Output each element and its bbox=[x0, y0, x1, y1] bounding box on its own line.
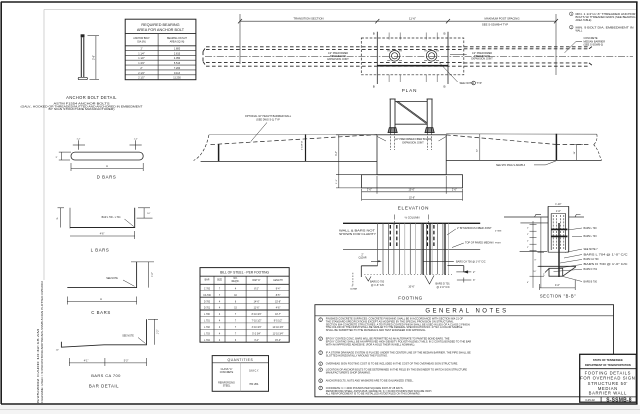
label: BARS D 701 with V leader bbox=[425, 276, 434, 285]
svg-text:BARS CA 700: BARS CA 700 bbox=[91, 373, 121, 378]
svg-text:S-SSMB-8: S-SSMB-8 bbox=[606, 398, 632, 404]
svg-text:BAR DETAIL: BAR DETAIL bbox=[89, 384, 119, 389]
CA bar right dim bbox=[154, 319, 156, 345]
svg-text:CLEAR: CLEAR bbox=[359, 257, 367, 260]
svg-text:℅ COLUMN: ℅ COLUMN bbox=[405, 215, 420, 219]
svg-text:ANCHOR BOLT DETAIL: ANCHOR BOLT DETAIL bbox=[66, 95, 117, 100]
inner faint margin border bbox=[44, 10, 636, 281]
svg-text:NO.: NO. bbox=[233, 278, 237, 280]
barrier dashed edge lines (plan) bbox=[203, 46, 593, 66]
svg-text:EXPANSION JOINT: EXPANSION JOINT bbox=[327, 58, 349, 61]
footing plan: wall edge lines bbox=[343, 222, 480, 224]
note 7 bbox=[319, 386, 323, 390]
svg-text:6": 6" bbox=[527, 282, 529, 284]
svg-text:ELEVATION: ELEVATION bbox=[398, 206, 429, 211]
svg-text:4" EXP JT: 4" EXP JT bbox=[301, 140, 303, 150]
label: BARS CA 700 leader bbox=[423, 260, 454, 262]
svg-text:2": 2" bbox=[473, 271, 475, 274]
section rebar dashed verticals bbox=[553, 215, 564, 250]
L bars bottom dim bbox=[70, 231, 135, 239]
svg-text:8": 8" bbox=[534, 260, 536, 262]
footing plan: heavy bars (thick) bbox=[423, 223, 445, 274]
svg-text:2 1/4": 2 1/4" bbox=[138, 72, 145, 75]
bar detail: BARS CA 700 bent bar bbox=[56, 319, 160, 388]
svg-text:(SEE DWG S-1) TYP: (SEE DWG S-1) TYP bbox=[256, 118, 280, 121]
mid joint line bbox=[305, 134, 307, 161]
svg-text:L 703: L 703 bbox=[204, 334, 210, 336]
svg-text:AREA (SQ IN): AREA (SQ IN) bbox=[170, 40, 185, 43]
dim ticks bbox=[238, 19, 558, 23]
note 6 bbox=[319, 379, 323, 383]
svg-text:DIM "A": DIM "A" bbox=[252, 279, 260, 282]
post base plate right bbox=[425, 128, 434, 133]
svg-text:STATE OF TENNESSEE: STATE OF TENNESSEE bbox=[593, 358, 623, 362]
barrier right end big curl bbox=[594, 145, 602, 161]
right joint line (thick) bbox=[555, 134, 557, 161]
svg-text:10'-6": 10'-6" bbox=[408, 285, 414, 288]
barrier left: top solid line bbox=[209, 134, 377, 136]
svg-text:MANUFACTURER'S SHOP DRAWING.: MANUFACTURER'S SHOP DRAWING. bbox=[326, 371, 371, 375]
svg-text:11'-10 3/4": 11'-10 3/4" bbox=[273, 334, 284, 336]
footing top line (section) bbox=[538, 265, 576, 267]
section line below (ground ref) bbox=[520, 250, 547, 252]
C bars right dim bbox=[148, 262, 150, 288]
barrier left: ground line bbox=[201, 160, 377, 162]
svg-text:3-25-02: 3-25-02 bbox=[585, 398, 595, 402]
svg-text:LENGTH: LENGTH bbox=[273, 280, 283, 282]
svg-text:CLEAR: CLEAR bbox=[350, 288, 358, 291]
svg-text:FILENAME: USER = S:\PROJ\STD\S: FILENAME: USER = S:\PROJ\STD\SGN\OHSIGN\… bbox=[41, 280, 44, 403]
footing plan: right step outline bbox=[448, 266, 464, 272]
right 16" dim bbox=[576, 144, 578, 160]
svg-text:CA 700: CA 700 bbox=[203, 294, 211, 297]
svg-text:3'-10 3/4": 3'-10 3/4" bbox=[252, 327, 262, 329]
svg-text:5.513: 5.513 bbox=[174, 62, 181, 65]
svg-text:8'-10 3/4": 8'-10 3/4" bbox=[252, 314, 262, 316]
svg-text:4" MIN: 4" MIN bbox=[495, 230, 502, 232]
svg-text:1'-2": 1'-2" bbox=[134, 138, 138, 140]
anchor bolt detail: bolt rod bbox=[21, 34, 144, 111]
svg-text:BAR L 700 - L 704: BAR L 700 - L 704 bbox=[102, 216, 121, 219]
D bars hook tick markers bbox=[73, 140, 142, 149]
post base plate left bbox=[388, 128, 397, 133]
svg-text:D 700: D 700 bbox=[204, 301, 211, 303]
svg-text:BARS L 703: BARS L 703 bbox=[584, 235, 598, 238]
note 4 bbox=[319, 362, 323, 366]
pedestal outline bbox=[377, 135, 446, 175]
svg-text:8'-2": 8'-2" bbox=[254, 288, 259, 290]
svg-text:DEPARTMENT OF TRANSPORTATION: DEPARTMENT OF TRANSPORTATION bbox=[585, 363, 631, 367]
svg-text:1'-10": 1'-10" bbox=[555, 203, 561, 206]
svg-text:SHALL BE SUBMITTED TO THE MATE: SHALL BE SUBMITTED TO THE MATERIALS AND … bbox=[326, 328, 427, 332]
svg-text:4'-1": 4'-1" bbox=[84, 361, 89, 363]
plan centerline bbox=[205, 55, 633, 57]
svg-text:4'-6": 4'-6" bbox=[100, 234, 105, 236]
svg-text:CONCRETE: CONCRETE bbox=[220, 371, 234, 374]
svg-text:1 1/2": 1 1/2" bbox=[138, 57, 145, 60]
svg-text:L 700: L 700 bbox=[204, 314, 210, 316]
svg-text:TYP: TYP bbox=[477, 81, 482, 85]
svg-text:1'-6": 1'-6" bbox=[556, 210, 561, 213]
svg-text:SEE NOTE: SEE NOTE bbox=[460, 81, 474, 85]
barrier right: dashed optional profile bbox=[446, 135, 591, 145]
table: QUANTITIES bbox=[212, 356, 268, 392]
svg-text:3'-6": 3'-6" bbox=[92, 55, 95, 60]
svg-text:FOOTING: FOOTING bbox=[398, 296, 422, 301]
anchor bolt circle left bbox=[389, 51, 400, 62]
section wall inner faces bbox=[550, 214, 552, 251]
svg-text:2": 2" bbox=[140, 67, 142, 70]
svg-text:SEE NOTE 7: SEE NOTE 7 bbox=[584, 248, 599, 251]
svg-text:D BARS: D BARS bbox=[97, 174, 117, 179]
section left dim stack bbox=[540, 217, 542, 288]
svg-text:3": 3" bbox=[352, 285, 354, 287]
anchor bolt dimension 3'-6" bbox=[88, 36, 100, 80]
svg-text:1'-3": 1'-3" bbox=[158, 330, 160, 335]
roadway lines left of wall bbox=[504, 216, 548, 218]
roadway lines right of wall bbox=[569, 216, 584, 218]
svg-text:ANCHOR BOLTS, NUTS AND WASHERS: ANCHOR BOLTS, NUTS AND WASHERS ARE TO BE… bbox=[326, 379, 414, 383]
FOOTING PLAN: column centerlines bbox=[395, 215, 429, 225]
svg-text:BARS L 700: BARS L 700 bbox=[584, 227, 598, 230]
svg-text:BARS L 704 @ 1'-0" C/C: BARS L 704 @ 1'-0" C/C bbox=[584, 253, 628, 256]
svg-text:MAXIMUM POST SPACING: MAXIMUM POST SPACING bbox=[484, 17, 519, 21]
callout leaders bbox=[554, 228, 583, 282]
svg-text:B: B bbox=[373, 32, 375, 36]
svg-text:REQUIRED BEARING: REQUIRED BEARING bbox=[141, 23, 179, 27]
svg-text:TOP OF PAVED MEDIAN: TOP OF PAVED MEDIAN bbox=[465, 242, 494, 245]
barrier right: ground line bbox=[446, 159, 601, 161]
bar detail: C BARS bbox=[67, 262, 154, 315]
svg-text:B: B bbox=[443, 32, 445, 36]
svg-text:PLAN: PLAN bbox=[402, 88, 418, 93]
anchor bolt bottom plate bbox=[78, 77, 87, 79]
plan label: SEE NOTE 1 TYP with leader bbox=[439, 62, 458, 82]
svg-text:10": 10" bbox=[533, 271, 536, 273]
svg-text:11.250: 11.250 bbox=[173, 77, 181, 80]
construction joint at bottom of pedestal bbox=[548, 251, 569, 253]
bar detail: L BARS bbox=[56, 208, 152, 253]
svg-text:1'-0": 1'-0" bbox=[152, 272, 154, 277]
svg-text:BARS D 700 @ 1'-0" C/C: BARS D 700 @ 1'-0" C/C bbox=[584, 263, 628, 266]
svg-text:9'-5 1/2": 9'-5 1/2" bbox=[274, 321, 283, 323]
svg-text:BARS D 701: BARS D 701 bbox=[584, 268, 598, 271]
section cut line B (left) bbox=[376, 32, 378, 84]
svg-text:@ 1'-6" C/C: @ 1'-6" C/C bbox=[437, 286, 450, 289]
svg-text:B: B bbox=[373, 85, 375, 89]
svg-text:@ 1'-6" C/C: @ 1'-6" C/C bbox=[371, 284, 384, 287]
PLAN VIEW: top dimension line bbox=[240, 14, 556, 75]
svg-text:BEARING ON NUT: BEARING ON NUT bbox=[167, 37, 187, 40]
svg-text:EXPANSION JOINT: EXPANSION JOINT bbox=[471, 58, 493, 61]
svg-text:BY SIGN STRUCTURE MANUFACTURER: BY SIGN STRUCTURE MANUFACTURER) bbox=[49, 108, 115, 111]
section wall outer faces bbox=[547, 206, 549, 252]
plan base plate heavy edge bbox=[377, 65, 448, 67]
svg-text:STEEL: STEEL bbox=[223, 385, 231, 388]
svg-text:MIN. 9 BOLT DIA. EMBEDMENT IN: MIN. 9 BOLT DIA. EMBEDMENT IN bbox=[576, 26, 634, 29]
CA bar bottom dim bbox=[69, 358, 146, 366]
svg-text:L 701: L 701 bbox=[204, 321, 210, 323]
ELEVATION: sign post left bbox=[390, 99, 396, 128]
svg-text:D 701: D 701 bbox=[204, 308, 211, 310]
footing plan: dashed D-bars at columns bbox=[390, 225, 434, 248]
svg-text:SHOWN FOR CLARITY: SHOWN FOR CLARITY bbox=[339, 233, 376, 236]
footing plan: CA rebar verticals bbox=[378, 223, 443, 274]
svg-text:3'-4": 3'-4" bbox=[335, 151, 338, 156]
svg-text:2" BITUMINOUS FIBER JOINT: 2" BITUMINOUS FIBER JOINT bbox=[457, 227, 492, 230]
svg-text:7'-10 1/2": 7'-10 1/2" bbox=[252, 321, 262, 323]
svg-text:2.813: 2.813 bbox=[174, 52, 181, 55]
bolt slot ticks bbox=[387, 51, 439, 61]
TITLE BLOCK bbox=[580, 354, 637, 402]
center heavy bar vertical bbox=[558, 223, 560, 277]
heavy bar markers in wall bbox=[552, 228, 568, 230]
svg-text:L 704: L 704 bbox=[204, 340, 210, 342]
svg-text:L 702: L 702 bbox=[204, 327, 210, 329]
svg-text:2'-6": 2'-6" bbox=[367, 189, 372, 192]
area below sheet bbox=[0, 405, 640, 414]
barrier left: optional barrier dashed top (sloping) bbox=[211, 135, 378, 145]
section bottom dim 4'-0" bbox=[540, 280, 576, 290]
svg-text:(SEE S-SDWB-3): (SEE S-SDWB-3) bbox=[584, 44, 604, 47]
footing plan: hidden bottom dashes bbox=[364, 274, 452, 276]
svg-text:14'-10 3/4": 14'-10 3/4" bbox=[273, 327, 284, 329]
title block body bbox=[580, 370, 635, 395]
svg-text:10'-6": 10'-6" bbox=[409, 189, 415, 192]
svg-text:3'-4": 3'-4" bbox=[254, 340, 259, 342]
svg-text:(GALV., HOOKED OR THREADED/NUT: (GALV., HOOKED OR THREADED/NUTTED AND AN… bbox=[21, 105, 144, 108]
svg-text:2": 2" bbox=[527, 241, 529, 243]
svg-text:EXPANSION JOINT: EXPANSION JOINT bbox=[402, 141, 424, 144]
svg-text:1'-2": 1'-2" bbox=[77, 138, 81, 140]
anchor bolt circle right bbox=[426, 51, 437, 62]
svg-text:PVMT: PVMT bbox=[495, 242, 502, 244]
left joint line (thick) bbox=[218, 144, 220, 161]
footing outline (elevation) bbox=[362, 175, 463, 188]
svg-text:1 1/4": 1 1/4" bbox=[138, 52, 145, 55]
svg-text:WALL: WALL bbox=[576, 29, 583, 32]
svg-text:B: B bbox=[443, 85, 445, 89]
post base extension ticks bbox=[389, 33, 437, 83]
svg-text:SEE NOTE: SEE NOTE bbox=[106, 278, 118, 280]
svg-text:32": 32" bbox=[477, 149, 479, 152]
svg-text:DIA.(IN): DIA.(IN) bbox=[137, 40, 146, 43]
svg-text:SEE S-SDWB-4 TYP: SEE S-SDWB-4 TYP bbox=[482, 23, 508, 27]
svg-text:10": 10" bbox=[56, 350, 59, 352]
svg-text:1'-1": 1'-1" bbox=[336, 179, 338, 184]
truss chords and diagonal bbox=[395, 100, 427, 102]
svg-text:TRANSITION SECTION: TRANSITION SECTION bbox=[293, 17, 323, 21]
title block bottom row bbox=[580, 396, 637, 398]
svg-text:2'-6": 2'-6" bbox=[452, 189, 457, 192]
table: BILL OF STEEL bbox=[200, 268, 289, 343]
svg-text:7.200: 7.200 bbox=[174, 67, 181, 70]
svg-text:BARS CA 700 @ 1'-0" C/C: BARS CA 700 @ 1'-0" C/C bbox=[456, 260, 486, 263]
svg-text:GENERAL NOTES: GENERAL NOTES bbox=[425, 309, 508, 315]
left clear dim dashed bbox=[352, 273, 354, 285]
svg-text:18.8 C.Y.: 18.8 C.Y. bbox=[249, 370, 259, 373]
svg-text:BAR: BAR bbox=[205, 278, 210, 281]
note 2 (top right) bbox=[570, 25, 574, 29]
svg-text:L BARS: L BARS bbox=[91, 248, 110, 253]
table: REQUIRED BEARING AREA FOR ANCHOR BOLT bbox=[125, 19, 196, 79]
svg-text:4'-0": 4'-0" bbox=[555, 284, 560, 287]
bar detail: D BARS stadium shape bbox=[56, 138, 144, 179]
svg-text:9.113: 9.113 bbox=[174, 72, 181, 75]
svg-text:1": 1" bbox=[140, 48, 142, 51]
label: BARS D 700 with V leader bbox=[366, 277, 372, 282]
svg-text:11'-6": 11'-6" bbox=[409, 17, 416, 21]
sign post right bbox=[427, 99, 433, 128]
svg-text:3": 3" bbox=[473, 279, 475, 282]
svg-text:A: A bbox=[106, 164, 108, 168]
C bars bottom dim bbox=[67, 297, 136, 305]
svg-text:SIZE: SIZE bbox=[217, 279, 223, 281]
svg-text:1.800: 1.800 bbox=[174, 48, 181, 51]
svg-text:ASTM F1554 ANCHOR BOLTS: ASTM F1554 ANCHOR BOLTS bbox=[54, 102, 111, 105]
svg-text:15'-6": 15'-6" bbox=[275, 301, 281, 303]
svg-text:780 LBS.: 780 LBS. bbox=[249, 383, 259, 386]
svg-text:2 1/2": 2 1/2" bbox=[138, 77, 145, 80]
svg-text:SEE NOTE: SEE NOTE bbox=[122, 335, 134, 337]
svg-text:QUANTITIES: QUANTITIES bbox=[228, 358, 254, 362]
svg-text:3": 3" bbox=[56, 157, 58, 159]
svg-text:11'-6": 11'-6" bbox=[254, 308, 260, 310]
L bars right dim 10 bbox=[137, 208, 153, 218]
svg-text:5'-3": 5'-3" bbox=[124, 361, 129, 363]
note 1 bbox=[319, 318, 323, 322]
footing plan: left step outline bbox=[361, 266, 377, 277]
svg-text:2": 2" bbox=[527, 234, 529, 236]
svg-text:2": 2" bbox=[527, 247, 529, 249]
svg-text:BARS B 700: BARS B 700 bbox=[584, 280, 598, 283]
svg-text:10": 10" bbox=[147, 213, 150, 215]
GENERAL NOTES box bbox=[315, 305, 614, 397]
D bars left small dim bbox=[59, 152, 71, 160]
L bars left dim bbox=[58, 208, 65, 228]
note 5 bbox=[319, 368, 323, 372]
footing key outline bbox=[545, 267, 576, 276]
svg-text:2": 2" bbox=[527, 228, 529, 230]
svg-text:15'-4": 15'-4" bbox=[275, 340, 281, 342]
svg-text:BILL OF STEEL - PER FOOTING: BILL OF STEEL - PER FOOTING bbox=[220, 271, 269, 275]
svg-text:BARS CA 700: BARS CA 700 bbox=[584, 258, 600, 261]
svg-text:OVERHEAD SIGN FOOTING COST IS: OVERHEAD SIGN FOOTING COST IS TO BE INCL… bbox=[326, 362, 458, 366]
elevation left dim stack bbox=[336, 135, 377, 188]
svg-text:4.050: 4.050 bbox=[174, 57, 181, 60]
svg-text:A: A bbox=[100, 297, 102, 301]
anchor bolts dashed in pedestal bbox=[391, 133, 432, 150]
svg-text:C BARS: C BARS bbox=[91, 310, 111, 315]
svg-text:BARRIER WALL: BARRIER WALL bbox=[589, 390, 627, 395]
svg-text:16": 16" bbox=[574, 151, 576, 154]
right 3" dim bbox=[457, 279, 471, 281]
svg-text:C 700: C 700 bbox=[204, 288, 211, 290]
svg-text:1 3/4": 1 3/4" bbox=[138, 62, 145, 65]
svg-text:WITH AN APPROVED ADHESIVE. (FO: WITH AN APPROVED ADHESIVE. (FOR A HOLD T… bbox=[326, 343, 416, 347]
right 2" dim bbox=[456, 271, 471, 273]
svg-text:9'-4": 9'-4" bbox=[276, 288, 281, 290]
note 3 bbox=[319, 351, 323, 355]
svg-text:14'-6": 14'-6" bbox=[254, 301, 260, 303]
svg-text:SLOTTED HORIZONTALLY AROUND TH: SLOTTED HORIZONTALLY AROUND THE FOOTING. bbox=[326, 354, 388, 358]
svg-text:SEE STD DWG S-SDWB-3: SEE STD DWG S-SDWB-3 bbox=[496, 164, 526, 167]
note 1 (top right) bbox=[570, 12, 574, 16]
32" height dim (right of pedestal) bbox=[479, 134, 481, 160]
svg-text:AREA TABLE): AREA TABLE) bbox=[576, 19, 592, 22]
svg-text:4'-6": 4'-6" bbox=[276, 308, 281, 310]
barrier left end nose curve bbox=[194, 135, 209, 161]
D bars dim A bbox=[71, 163, 143, 171]
svg-text:6/25/2002 CADD 10:42:18 AM: 6/25/2002 CADD 10:42:18 AM bbox=[37, 329, 40, 403]
elevation bottom dim row bbox=[362, 176, 463, 201]
svg-text:REQ'D.: REQ'D. bbox=[232, 281, 240, 283]
svg-text:5'-2 3/4": 5'-2 3/4" bbox=[252, 334, 261, 336]
svg-text:15'-6": 15'-6" bbox=[409, 196, 415, 199]
svg-text:ALL REINFORCEMENT IS TO BE INS: ALL REINFORCEMENT IS TO BE INSTALLED AS … bbox=[326, 392, 421, 396]
svg-text:ANCHOR BOLT: ANCHOR BOLT bbox=[133, 37, 150, 40]
section cut line B (right) bbox=[447, 32, 449, 84]
section B-B callouts right bbox=[584, 227, 628, 283]
plan footing dashed outline bbox=[361, 38, 464, 75]
svg-text:AREA FOR ANCHOR BOLT: AREA FOR ANCHOR BOLT bbox=[137, 28, 185, 32]
svg-text:10'-7": 10'-7" bbox=[275, 314, 281, 316]
barrier right: top solid line with end curl bbox=[446, 133, 597, 135]
svg-text:SECTION "B-B": SECTION "B-B" bbox=[540, 294, 576, 299]
svg-text:8'-5": 8'-5" bbox=[276, 295, 281, 297]
note 2 bbox=[319, 337, 323, 341]
